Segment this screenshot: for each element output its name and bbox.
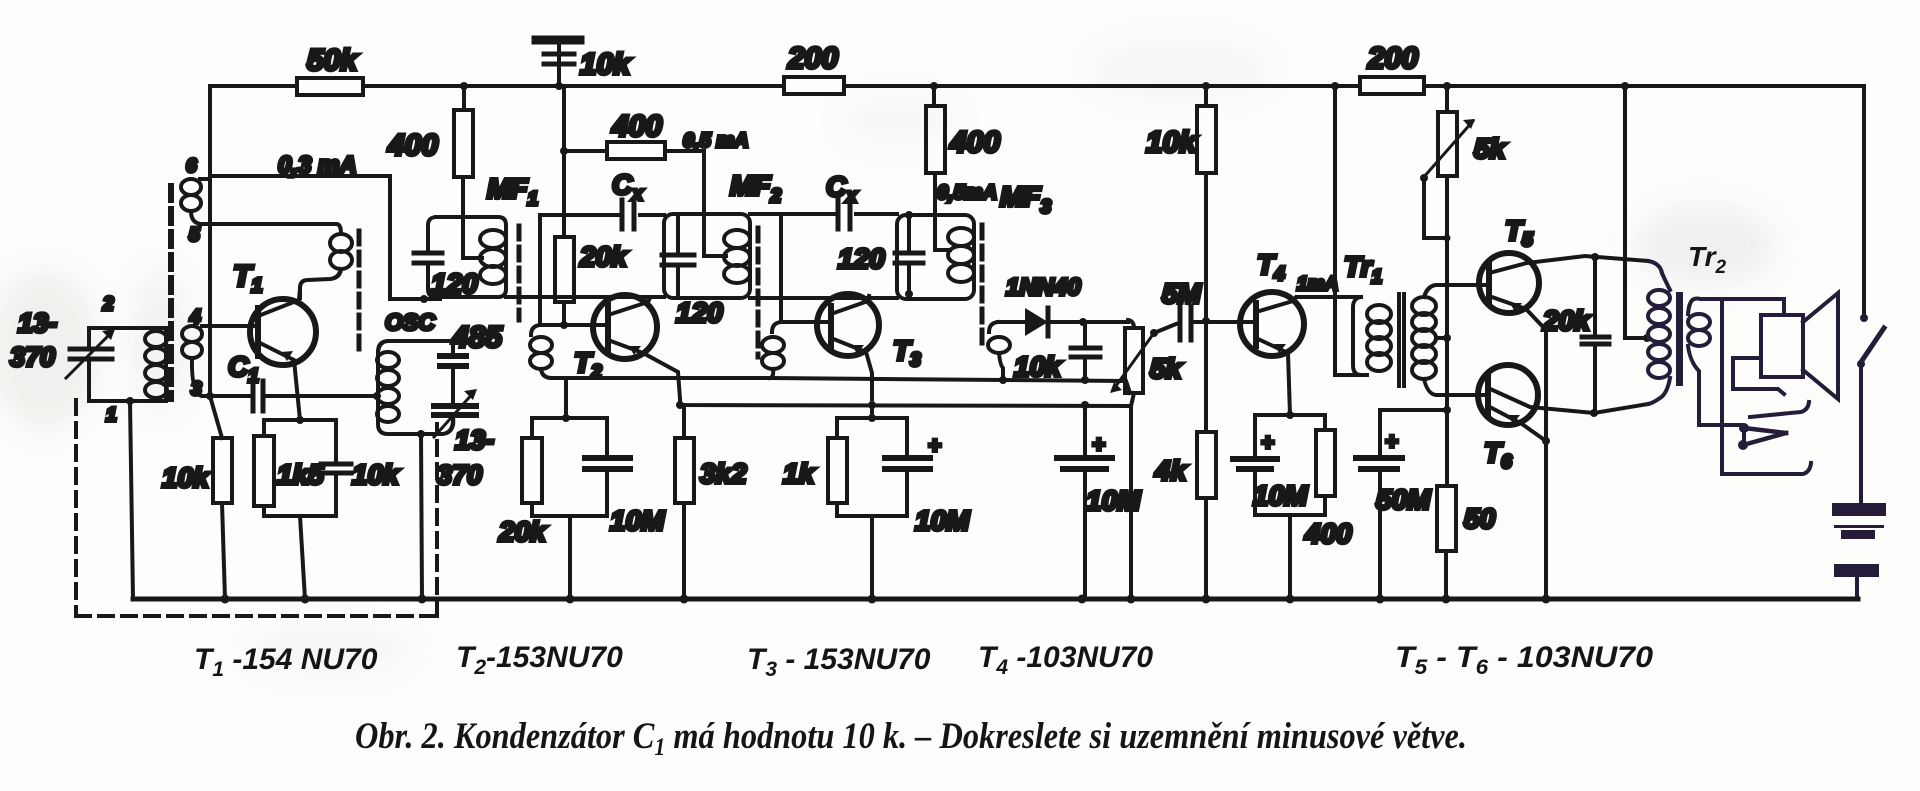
diode 1NN40 — [998, 274, 1128, 336]
svg-text:5k: 5k — [1150, 353, 1183, 384]
svg-text:10k: 10k — [1014, 351, 1062, 382]
resistor 400 (horizontal, MF2 feed) — [564, 110, 749, 256]
resistor 200 (first) — [784, 42, 844, 94]
svg-text:1mA: 1mA — [1297, 274, 1338, 295]
wire: rail drop to Tr1 primary — [1335, 86, 1360, 375]
node: ground rail junction dots — [221, 595, 1551, 604]
resistor 20k and capacitor 10M (T2 bias network) — [498, 378, 665, 599]
svg-text:10M: 10M — [610, 505, 665, 536]
resistor 400 (MF1 feed) — [387, 86, 482, 258]
core (dashed) of MF3 — [980, 225, 985, 348]
dashed outline of T1 converter block — [76, 186, 437, 616]
svg-text:485: 485 — [451, 321, 503, 354]
svg-text:50M: 50M — [1376, 484, 1431, 515]
svg-text:50k: 50k — [307, 44, 358, 77]
svg-text:10M: 10M — [1253, 480, 1308, 511]
coupling capacitor 5M — [1154, 278, 1256, 340]
svg-text:10k: 10k — [352, 459, 400, 490]
node: dots on emitter bus — [676, 401, 1089, 409]
svg-text:1k5: 1k5 — [277, 459, 324, 490]
svg-text:10k: 10k — [580, 48, 631, 81]
capacitor 485 (oscillator) — [440, 321, 503, 404]
svg-text:370: 370 — [437, 460, 482, 490]
svg-text:400: 400 — [1304, 518, 1352, 549]
IF transformer MF2 — [662, 170, 781, 328]
resistor 1k and capacitor 10M (T3 emitter network) — [783, 405, 970, 599]
resistor 10k (T4 base upper) — [1146, 86, 1216, 321]
node: oscillator box to ground — [417, 430, 425, 599]
IF transformer MF3 — [897, 181, 1051, 299]
svg-text:T5 - T6 - 103NU70: T5 - T6 - 103NU70 — [1395, 641, 1653, 679]
T1 input winding pins 6-5 — [181, 156, 341, 246]
svg-text:6: 6 — [186, 156, 197, 177]
svg-text:5: 5 — [189, 225, 200, 246]
wire: rail to T1 stage (left drop) — [208, 86, 212, 396]
svg-text:13-: 13- — [18, 308, 57, 338]
resistor 200 (second) — [1360, 42, 1424, 94]
wire: vertical feed to T2 (x=564) — [560, 86, 568, 325]
power switch — [1857, 314, 1884, 503]
svg-text:20k: 20k — [498, 516, 547, 547]
trimmer capacitor 13-370 (oscillator) — [421, 389, 494, 490]
resistor 3k2 (T2 emitter) — [675, 405, 747, 599]
volume potentiometer 5k — [1110, 320, 1183, 599]
capacitor 50M — [1356, 406, 1451, 599]
svg-text:20k: 20k — [579, 241, 628, 272]
neutralizing capacitor Cx (T2) — [540, 169, 664, 325]
node: antenna circuit to ground — [126, 397, 134, 599]
svg-text:0,3 mA: 0,3 mA — [278, 152, 357, 179]
svg-text:370: 370 — [10, 342, 55, 372]
wire: top supply rail — [210, 86, 1864, 316]
antenna coil (ferrite rod winding) — [89, 294, 167, 426]
svg-text:5k: 5k — [1474, 133, 1507, 164]
wire: line A (AGC bus) — [552, 378, 1130, 393]
capacitor 20k (across output) — [1542, 253, 1609, 417]
transistor T1 — [233, 260, 316, 420]
core (dashed) of T1 oscillator coil — [357, 231, 362, 352]
wire: battery to ground rail — [1855, 577, 1859, 599]
output transformer Tr2 — [1648, 241, 1784, 425]
capacitor 10k bypass at top — [536, 40, 631, 86]
wire: 0.3 mA feed line — [210, 152, 440, 299]
wire: collector bus T1/T2 (y=298) — [390, 297, 897, 299]
core (dashed) of MF2 — [756, 228, 761, 357]
resistor 20k (T2 base) — [555, 237, 628, 302]
resistor 50 — [1437, 486, 1496, 599]
svg-text:+: + — [1092, 432, 1105, 457]
svg-text:+: + — [1261, 430, 1274, 455]
wire: line B (emitter bus) — [680, 399, 1130, 406]
wire: bottom ground rail — [133, 597, 1858, 602]
wire: rail drop to Tr2 centre tap — [1625, 86, 1646, 338]
MF1 secondary winding — [530, 325, 552, 378]
svg-text:3k2: 3k2 — [700, 458, 747, 489]
svg-text:120: 120 — [838, 243, 885, 274]
capacitor 10M (detector output) — [1057, 405, 1141, 599]
svg-text:+: + — [1385, 429, 1398, 454]
svg-text:0,5 mA: 0,5 mA — [683, 130, 749, 152]
battery — [1832, 503, 1886, 577]
resistor 10k (T1 base) — [162, 396, 232, 599]
svg-text:120: 120 — [431, 268, 478, 299]
transistor T2 — [540, 295, 680, 399]
resistor 4k (T4 base lower) — [1154, 321, 1216, 599]
MF2 secondary winding — [762, 322, 784, 378]
svg-text:50: 50 — [1464, 503, 1496, 534]
svg-text:20k: 20k — [1542, 305, 1591, 336]
svg-text:10M: 10M — [915, 505, 970, 536]
svg-text:1NN40: 1NN40 — [1006, 274, 1081, 301]
T1 base winding pins 4-3 — [182, 307, 256, 400]
svg-text:0,5mA: 0,5mA — [937, 182, 997, 204]
tuning capacitor 13-370 (antenna) — [10, 308, 115, 401]
svg-text:200: 200 — [787, 42, 838, 75]
T1 feedback coil (collector winding) — [300, 234, 352, 298]
svg-text:400: 400 — [949, 126, 1000, 159]
transistor T5 — [1479, 215, 1648, 599]
IF transformer MF1 — [414, 173, 538, 299]
svg-text:2: 2 — [102, 294, 114, 315]
MF3 secondary winding — [988, 322, 1089, 384]
svg-text:10k: 10k — [162, 462, 210, 493]
neutralizing capacitor Cx (T3) — [750, 171, 897, 322]
svg-text:13-: 13- — [455, 425, 494, 455]
resistor 50k — [297, 44, 363, 95]
core (dashed) of MF1 — [517, 226, 522, 320]
transistor T4 — [1240, 249, 1361, 415]
svg-text:OSC: OSC — [385, 309, 435, 335]
transistor T3 — [781, 294, 921, 399]
driver transformer Tr1 — [1344, 251, 1488, 395]
label: transistor types — [194, 641, 1653, 681]
svg-text:Obr. 2. Kondenzátor C1 má hod: Obr. 2. Kondenzátor C1 má hodnotu 10 k. … — [355, 716, 1467, 761]
node: junction at 120/MF1 bottom — [420, 295, 428, 303]
oscillator coil OSC box — [373, 309, 443, 434]
svg-text:120: 120 — [676, 297, 723, 328]
svg-text:400: 400 — [387, 129, 438, 162]
potentiometer 5k (bias, T5) — [1420, 86, 1507, 486]
loudspeaker — [1733, 293, 1838, 399]
svg-text:10M: 10M — [1086, 485, 1141, 516]
svg-text:10k: 10k — [1146, 126, 1197, 159]
resistor 1k5 and capacitor 10k (T1 emitter network) — [254, 416, 400, 599]
svg-text:4k: 4k — [1154, 455, 1188, 486]
svg-text:1: 1 — [106, 405, 117, 426]
transistor T6 — [1478, 365, 1648, 473]
headphone jack contacts — [1722, 299, 1811, 474]
capacitor 120 (MF3 tank) — [838, 211, 923, 298]
svg-text:1k: 1k — [783, 458, 816, 489]
resistor 400 (MF3 feed) — [926, 86, 1000, 250]
capacitor 10k (detector filter) — [1014, 322, 1100, 382]
svg-text:400: 400 — [611, 110, 662, 143]
svg-text:200: 200 — [1367, 42, 1418, 75]
svg-text:+: + — [928, 433, 941, 458]
capacitor C1 — [206, 351, 374, 411]
node: rail junction dots — [460, 82, 1629, 90]
capacitor 10M and resistor 400 (T4 emitter network) — [1233, 411, 1352, 599]
